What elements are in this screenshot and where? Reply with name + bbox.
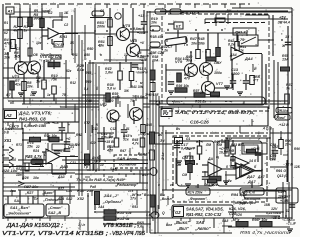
svg-text:Х52: Х52 — [76, 196, 85, 201]
svg-text:R81-R92, С30-С32: R81-R92, С30-С32 — [186, 212, 222, 217]
svg-text:R27: R27 — [16, 167, 22, 171]
svg-text:R11: R11 — [72, 53, 78, 57]
svg-text:V15: V15 — [130, 38, 138, 43]
svg-text:СМ 35: СМ 35 — [182, 156, 194, 160]
svg-text:ДА3: ДА3 — [59, 164, 69, 169]
svg-text:41к: 41к — [14, 83, 21, 87]
svg-text:22: 22 — [35, 145, 40, 149]
svg-text:VТ8: VТ8 — [40, 55, 48, 59]
svg-text:12Б: 12Б — [294, 165, 300, 169]
svg-text:0,227мкА: 0,227мкА — [266, 211, 282, 215]
svg-text:R58: R58 — [85, 71, 91, 75]
svg-text:1к5: 1к5 — [14, 55, 21, 59]
svg-text:1Б: 1Б — [70, 41, 75, 45]
svg-text:С2: С2 — [64, 23, 68, 27]
svg-text:R90: R90 — [294, 147, 300, 151]
svg-text:R42: R42 — [76, 133, 82, 137]
svg-text:R59: R59 — [85, 80, 91, 84]
svg-text:Ж: Ж — [281, 44, 286, 48]
svg-text:SA2 „В: SA2 „В — [48, 211, 61, 215]
svg-text:СЧ 30: СЧ 30 — [55, 43, 65, 47]
svg-text:5,6к: 5,6к — [137, 225, 145, 229]
svg-text:SA1 „Вкл": SA1 „Вкл" — [10, 205, 30, 210]
svg-text:10к: 10к — [33, 176, 39, 180]
svg-text:ЛМ: ЛМ — [216, 143, 222, 147]
svg-text:Гн: Гн — [184, 43, 188, 47]
svg-text:1000мк: 1000мк — [278, 195, 290, 199]
svg-text:R60: R60 — [86, 99, 92, 103]
svg-text:5,6: 5,6 — [146, 213, 151, 217]
svg-text:G2: G2 — [175, 210, 181, 215]
svg-text:4к: 4к — [13, 29, 18, 33]
svg-text:с: с — [40, 99, 42, 103]
svg-text:2R10ч: 2R10ч — [277, 109, 288, 113]
svg-text:R94 4,7к: R94 4,7к — [231, 192, 248, 197]
svg-text:SA1: SA1 — [14, 199, 21, 203]
svg-text:д: д — [130, 169, 132, 173]
svg-text:С5: С5 — [8, 127, 12, 131]
svg-text:17х: 17х — [130, 197, 137, 201]
svg-text:+15В: +15В — [280, 199, 289, 203]
svg-text:К2: К2 — [4, 31, 8, 35]
svg-text:10н: 10н — [16, 173, 22, 177]
svg-text:ЛМ: ЛМ — [205, 143, 211, 147]
svg-text:+ 13: + 13 — [137, 55, 144, 59]
svg-text:470: 470 — [106, 149, 113, 153]
svg-text:470: 470 — [89, 141, 96, 145]
svg-text:R25 4,7к: R25 4,7к — [25, 154, 42, 159]
svg-text:+12 В: +12 В — [279, 123, 289, 127]
svg-text:G1: G1 — [176, 140, 181, 144]
svg-text:1м: 1м — [30, 71, 35, 75]
svg-text:щ: щ — [216, 155, 219, 159]
svg-text:ДА: ДА — [207, 157, 214, 161]
svg-text:Вкл: Вкл — [166, 223, 172, 227]
svg-text:СМ: СМ — [176, 163, 181, 167]
svg-text:VВ2-VР4 Л9Б: VВ2-VР4 Л9Б — [112, 231, 145, 237]
svg-text:51: 51 — [126, 127, 130, 131]
svg-text:Т9 5,8м: Т9 5,8м — [132, 95, 145, 99]
svg-text:2к: 2к — [39, 163, 44, 167]
svg-text:SA6,SA7, VD4,VD5,: SA6,SA7, VD4,VD5, — [186, 206, 224, 211]
svg-text:о: о — [158, 183, 160, 187]
svg-text:12: 12 — [286, 209, 290, 213]
svg-text:+15 В: +15 В — [104, 140, 114, 144]
svg-text:С24: С24 — [58, 197, 64, 201]
svg-text:гн: гн — [170, 183, 174, 187]
svg-text:1м: 1м — [36, 80, 41, 84]
svg-text:СМ: СМ — [182, 173, 187, 177]
svg-text:–12 Б: –12 Б — [283, 163, 293, 167]
svg-text:С3: С3 — [16, 47, 20, 51]
svg-text:VТ9: VТ9 — [175, 59, 183, 64]
svg-text:R98* 10к: R98* 10к — [252, 218, 268, 222]
svg-text:5,8 м: 5,8 м — [107, 87, 116, 91]
svg-text:1,6м: 1,6м — [105, 71, 113, 75]
svg-text:м: м — [2, 153, 5, 157]
svg-text:75: 75 — [62, 93, 66, 97]
svg-text:С24: С24 — [66, 189, 72, 193]
svg-text:Ж2: Ж2 — [185, 147, 191, 151]
svg-text:С21: С21 — [70, 161, 76, 165]
svg-text:10: 10 — [100, 163, 104, 167]
svg-text:2,2к: 2,2к — [160, 49, 169, 53]
svg-text:48к: 48к — [97, 44, 105, 48]
svg-text:С7: С7 — [168, 45, 172, 49]
svg-text:4,7к: 4,7к — [131, 142, 139, 146]
svg-text:+15-В: +15-В — [271, 216, 281, 220]
svg-text:25ч: 25ч — [284, 143, 291, 147]
svg-text:VТ1-VТ7, VТ9-VТ14 КТ315В ;: VТ1-VТ7, VТ9-VТ14 КТ315В ; — [2, 231, 109, 237]
svg-text:Вч: Вч — [176, 127, 180, 131]
svg-text:R12: R12 — [70, 81, 76, 85]
svg-text:дwired: дwired — [78, 219, 82, 230]
svg-text:Вч: Вч — [158, 133, 162, 137]
svg-text:SA2: SA2 — [66, 197, 73, 201]
svg-text:6,8мкФ·15В: 6,8мкФ·15В — [24, 123, 46, 128]
svg-text:R45: R45 — [146, 123, 152, 127]
svg-text:1Б: 1Б — [64, 11, 69, 15]
svg-text:15В: 15В — [264, 203, 271, 207]
svg-text:10А: 10А — [152, 59, 159, 63]
svg-text:ДА3: ДА3 — [57, 175, 65, 179]
svg-text:С11: С11 — [92, 127, 98, 131]
svg-text:останов": останов" — [119, 162, 138, 167]
svg-text:шряд: шряд — [42, 9, 51, 13]
svg-text:15к: 15к — [27, 145, 33, 149]
svg-text:VТ7: VТ7 — [84, 121, 90, 125]
svg-text:R26: R26 — [22, 176, 30, 180]
svg-text:470к: 470к — [3, 42, 12, 46]
svg-text:ЗЧ6·15Е: ЗЧ6·15Е — [145, 93, 159, 97]
svg-text:R24: R24 — [33, 149, 39, 153]
svg-text:ЗА4 „J": ЗА4 „J" — [104, 193, 119, 198]
svg-text:ч: ч — [104, 159, 106, 163]
svg-text:Р2: Р2 — [163, 111, 169, 116]
svg-text:ч*Т: ч*Т — [253, 78, 259, 82]
svg-text:470: 470 — [183, 77, 190, 81]
svg-text:А1: А1 — [7, 9, 14, 14]
svg-text:→R41 3Ж: →R41 3Ж — [127, 85, 144, 89]
svg-text:ЛЧ2.Х: ЛЧ2.Х — [234, 31, 246, 35]
svg-text:ДА4: ДА4 — [229, 53, 237, 57]
svg-text:2к: 2к — [227, 179, 232, 183]
svg-text:+С: +С — [66, 137, 71, 141]
svg-text:Вык: Вык — [144, 193, 151, 197]
svg-text:R71: R71 — [16, 143, 22, 147]
svg-text:SA8: SA8 — [196, 220, 205, 225]
svg-text:G1: G1 — [186, 137, 191, 141]
svg-text:10к: 10к — [151, 21, 157, 25]
svg-text:С16-С26: С16-С26 — [190, 119, 209, 124]
svg-text:1к: 1к — [47, 93, 51, 97]
svg-text:„Эндогенно": „Эндогенно" — [5, 211, 31, 216]
svg-text:+: + — [68, 123, 70, 127]
svg-text:1к: 1к — [24, 29, 28, 33]
svg-text:R36 10к: R36 10к — [176, 84, 189, 88]
svg-text:„Стоп": „Стоп" — [47, 206, 63, 210]
svg-text:R53: R53 — [132, 205, 138, 209]
svg-text:10к: 10к — [27, 85, 33, 89]
svg-text:R50: R50 — [84, 53, 90, 57]
svg-text:ТЫ!*4,5х R48 4,7к(а) R49*: ТЫ!*4,5х R48 4,7к(а) R49* — [76, 177, 126, 182]
svg-text:10: 10 — [30, 93, 34, 97]
svg-text:620: 620 — [108, 99, 114, 103]
svg-text:6800: 6800 — [231, 72, 240, 76]
svg-text:+С8: +С8 — [52, 121, 59, 125]
svg-text:R1В 43к: R1В 43к — [150, 35, 163, 39]
svg-text:ДА7: ДА7 — [246, 174, 256, 179]
svg-text:X51: X51 — [3, 138, 12, 143]
svg-text:R91 О: R91 О — [276, 169, 286, 173]
svg-text:ЗА5, VТ12-VТ14, 958-М75,: ЗА5, VТ12-VТ14, 958-М75, — [175, 110, 255, 115]
svg-text:VТ7: VТ7 — [108, 119, 116, 123]
svg-text:+15-Б: +15-Б — [286, 222, 295, 226]
svg-text:„Авто": „Авто" — [194, 226, 211, 231]
svg-text:А2: А2 — [5, 113, 12, 118]
svg-text:„М"к: „М"к — [230, 218, 239, 222]
svg-text:62к: 62к — [66, 69, 72, 73]
svg-text:а: а — [2, 160, 4, 164]
svg-text:„Акко": „Акко" — [41, 191, 54, 195]
svg-text:R1: R1 — [4, 21, 8, 25]
svg-text:17х: 17х — [128, 189, 134, 193]
svg-text:ЗВЧ4.4: ЗВЧ4.4 — [278, 21, 290, 25]
svg-text:8,2к: 8,2к — [228, 43, 235, 47]
svg-text:R7с 10к: R7с 10к — [44, 134, 57, 138]
svg-text:ЗА4: ЗА4 — [98, 205, 104, 209]
svg-text:R27: R27 — [58, 187, 64, 191]
svg-text:Рад: Рад — [90, 185, 96, 189]
svg-text:4,7: 4,7 — [59, 149, 65, 153]
svg-text:„R27: „R27 — [24, 191, 34, 195]
svg-text:люб*м: люб*м — [136, 70, 148, 74]
svg-text:Вы: Вы — [160, 193, 165, 197]
svg-text:7к: 7к — [286, 87, 290, 91]
svg-text:+8: +8 — [140, 41, 144, 45]
svg-text:Гр: Гр — [84, 165, 88, 169]
svg-text:„Вкл": „Вкл" — [176, 226, 189, 231]
svg-text:4,7: 4,7 — [5, 93, 11, 97]
svg-text:R1Ч 250к: R1Ч 250к — [188, 191, 203, 195]
svg-text:200к: 200к — [96, 25, 106, 29]
svg-text:2к: 2к — [209, 183, 214, 187]
svg-text:V26: V26 — [236, 213, 242, 217]
svg-text:5,8: 5,8 — [84, 87, 89, 91]
svg-text:R49: R49 — [142, 173, 148, 177]
svg-text:R83: R83 — [238, 143, 244, 147]
svg-text:4 Q.В: 4 Q.В — [262, 127, 272, 131]
svg-text:51к: 51к — [123, 138, 129, 142]
svg-text:Q: Q — [162, 211, 165, 215]
svg-text:20мкГ: 20мкГ — [275, 116, 287, 120]
svg-text:14 б: 14 б — [249, 159, 257, 163]
svg-text:С1: С1 — [100, 9, 104, 13]
svg-text:R47: R47 — [120, 149, 126, 153]
svg-text:SA8: SA8 — [222, 219, 229, 223]
svg-text:ДА7: ДА7 — [257, 175, 265, 179]
svg-text:К12 С2м: К12 С2м — [48, 55, 62, 59]
svg-text:„Формат": „Формат" — [187, 197, 207, 201]
svg-text:С27: С27 — [278, 190, 286, 194]
svg-text:С12: С12 — [110, 127, 116, 131]
svg-text:ДА1-ДА9 К155УД2 ;: ДА1-ДА9 К155УД2 ; — [6, 223, 63, 229]
svg-text:„Орбовы": „Орбовы" — [102, 199, 123, 204]
svg-text:R50: R50 — [87, 47, 93, 51]
svg-text:„Выкл": „Выкл" — [159, 197, 174, 201]
svg-text:ЛВУ: ЛВУ — [213, 61, 222, 65]
svg-text:С22: С22 — [270, 143, 276, 147]
svg-text:„Радиатор": „Радиатор" — [114, 183, 138, 187]
svg-text:Т9: Т9 — [130, 99, 134, 103]
svg-text:2ч: 2ч — [199, 91, 204, 95]
svg-text:VТ7: VТ7 — [216, 82, 224, 86]
svg-text:ДА4: ДА4 — [244, 57, 253, 61]
svg-text:R95 4,7к „Чистота": R95 4,7к „Чистота" — [240, 230, 293, 235]
